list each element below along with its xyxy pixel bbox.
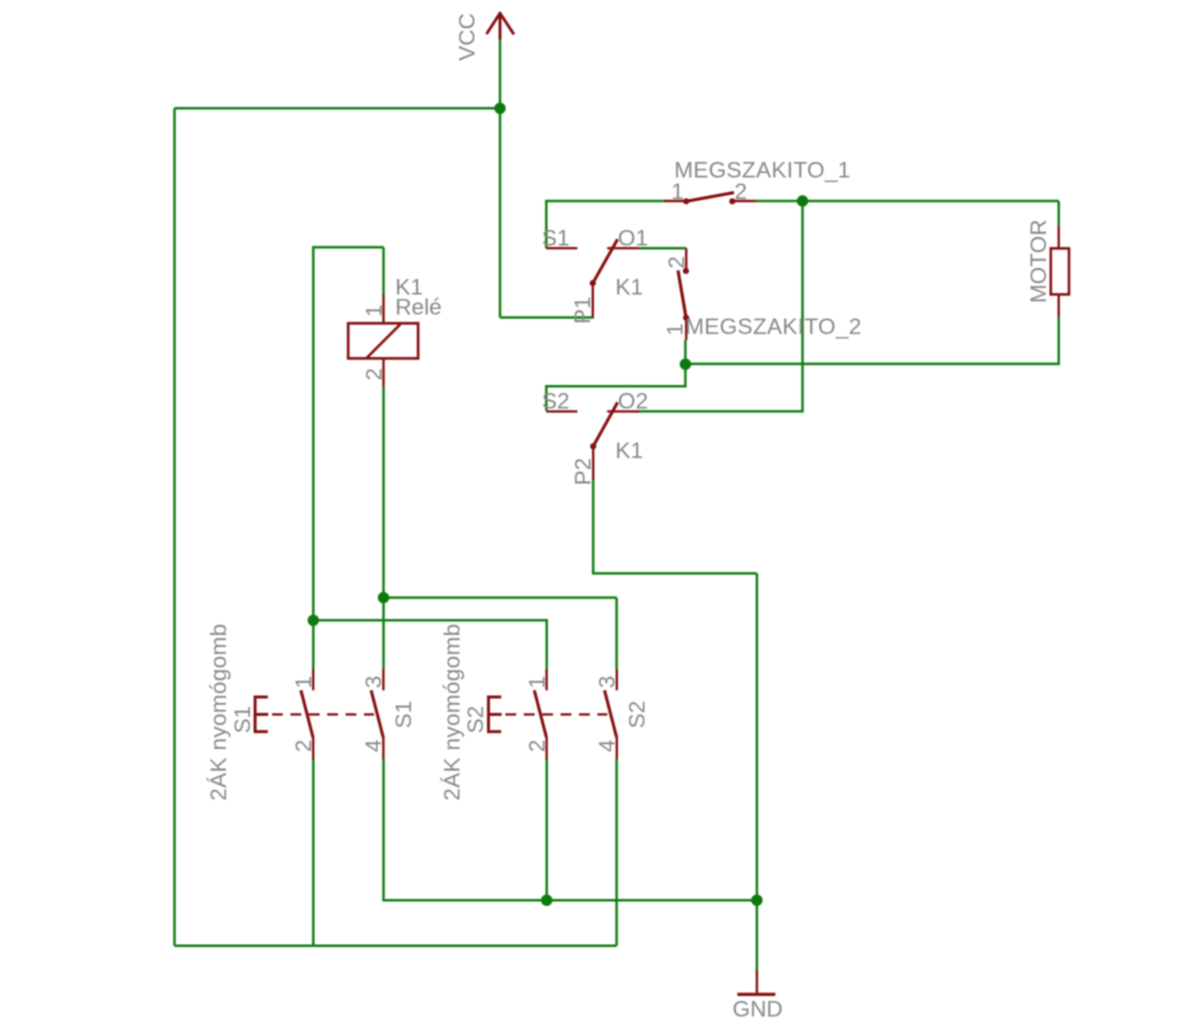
pushbutton S2 pin 2 stub [545,738,547,760]
resistor MOTOR pin 2 stub [1057,294,1059,317]
breaker MEGSZAKITO_1 contact dot pin1 [683,198,689,204]
breaker MEGSZAKITO_1 pin 1 stub [663,200,686,202]
svg-text:P2: P2 [571,458,596,486]
wire P2 down and across to GND riser [593,480,757,573]
pushbutton S2 pin 4 stub [616,738,618,760]
svg-text:1: 1 [671,179,684,204]
pushbutton S2 blade 3-4 [605,690,617,737]
pushbutton S1 pin 2 stub [312,738,314,760]
svg-text:3: 3 [594,676,619,689]
svg-text:1: 1 [362,304,387,317]
svg-text:2: 2 [735,179,748,204]
relay K1 pin 1 wire stub [382,294,384,323]
junction node VCC [494,103,505,114]
relay K1 pin 2 wire stub [382,358,384,386]
wire relay top loop to left column [313,247,383,668]
svg-text:2: 2 [361,368,386,381]
wire MOTOR bottom to middle node [685,317,1058,364]
pushbutton S2 actuator bracket [488,697,501,732]
wire S2 pin2 column down to GND row [545,760,548,901]
wire relay pin2 node to S2 pin3 column [384,596,617,599]
svg-text:S1: S1 [230,706,255,734]
pushbutton S1 actuator bracket [255,697,268,732]
relay contact K1a P1 pin stub [592,283,594,317]
relay contact K1b pivot dot P2 [590,443,596,449]
junction node S1 pushbutton pin1 [308,615,319,626]
pushbutton S2 blade 1-2 [534,690,546,737]
svg-text:1: 1 [662,323,687,336]
svg-text:3: 3 [361,676,386,689]
breaker MEGSZAKITO_1 blade [686,193,734,202]
svg-text:2: 2 [291,740,316,753]
svg-text:S1: S1 [391,701,416,729]
pushbutton S1 pin 3 stub [382,669,384,691]
junction node MEGSZAKITO_1 output [797,195,808,206]
relay contact K1b S2 throw stub [546,410,577,412]
relay contact K1b O2 throw stub [607,410,639,412]
svg-text:2: 2 [524,740,549,753]
wire S1 pin4 column down and across to GND node [384,760,757,901]
wire O1 contact to MEGSZAKITO_2 pin2 [639,247,686,250]
svg-text:VCC: VCC [455,13,480,61]
relay contact K1a O1 throw stub [607,247,639,249]
pushbutton S2 pin 3 stub [616,669,618,691]
svg-text:K1: K1 [615,438,643,463]
wire S2 pin4 column lower segment [615,760,618,946]
breaker MEGSZAKITO_1 pin 2 stub [732,200,755,202]
svg-text:O1: O1 [618,226,648,251]
supply symbol VCC arrow [487,13,513,38]
wire S1 contact riser to MEGSZAKITO_1 pin1 [546,201,663,248]
wire MOTOR top pin feed [1057,201,1060,226]
svg-text:2: 2 [664,256,689,269]
wire S1 pin2 column down to bottom rail [312,760,315,946]
svg-text:GND: GND [733,997,783,1022]
breaker MEGSZAKITO_2 blade [678,270,686,317]
wire relay pin2 down to S1 pin3 [382,386,385,669]
svg-text:K1: K1 [615,275,643,300]
wire S1 pin1 node across to S2 pin1 column [313,620,546,668]
resistor MOTOR pin 1 stub [1057,226,1059,249]
svg-text:4: 4 [361,740,386,753]
svg-text:1: 1 [524,676,549,689]
pushbutton S2 pin 1 stub [545,669,547,691]
junction node GND [751,895,762,906]
wire VCC row to P1 [500,316,594,319]
svg-text:MEGSZAKITO_1: MEGSZAKITO_1 [674,158,850,183]
junction node middle (MOTOR return) [680,359,691,370]
svg-text:S2: S2 [542,389,570,414]
svg-text:4: 4 [594,740,619,753]
junction node S2 pushbutton pin2 to GND row [541,895,552,906]
wire middle node down to S2 contact [546,340,685,411]
breaker MEGSZAKITO_2 pin 2 stub [685,248,687,271]
svg-text:MEGSZAKITO_2: MEGSZAKITO_2 [685,314,861,339]
pushbutton S1 blade 1-2 [301,690,313,737]
svg-text:2ÁK nyomógomb: 2ÁK nyomógomb [439,623,464,800]
svg-text:O2: O2 [618,389,648,414]
svg-text:P1: P1 [570,296,595,324]
svg-text:S1: S1 [542,226,570,251]
breaker MEGSZAKITO_2 contact dot pin2 [683,268,689,274]
relay contact K1b blade [593,402,617,446]
relay K1 coil box [348,323,418,358]
svg-text:MOTOR: MOTOR [1026,219,1051,303]
wire GND riser [756,573,759,970]
wire MEGSZAKITO_1 pin2 to MOTOR column [756,200,1059,203]
wire left rail vertical [173,108,176,945]
wire top horizontal from left rail to VCC node [175,107,501,110]
wire relay pin1 riser [382,247,385,294]
svg-text:S2: S2 [463,706,488,734]
relay contact K1a pivot dot P1 [590,280,596,286]
pushbutton S1 pin 4 stub [382,738,384,760]
breaker MEGSZAKITO_2 contact dot pin1 [683,315,689,321]
breaker MEGSZAKITO_1 contact dot pin2 [729,198,735,204]
wire S2 pin3 column upper segment [615,598,618,669]
wire bottom horizontal left rail to S2 pin4 column [175,944,617,947]
pushbutton S1 blade 3-4 [371,690,383,737]
svg-text:Relé: Relé [395,294,441,319]
resistor MOTOR body [1051,248,1069,294]
breaker MEGSZAKITO_2 pin 1 stub [685,318,687,340]
wire VCC stem down to node P1 row [499,38,502,318]
pushbutton S2 actuator dashed link [505,713,607,715]
wire MEGSZAKITO_1 node down to O2 row [638,201,803,411]
relay contact K1a S1 throw stub [546,247,577,249]
junction node relay pin2 branch [378,592,389,603]
svg-text:2ÁK nyomógomb: 2ÁK nyomógomb [206,623,231,800]
ground symbol GND [737,970,775,994]
svg-text:S2: S2 [625,701,650,729]
pushbutton S1 actuator dashed link [272,713,374,715]
pushbutton S1 pin 1 stub [312,669,314,691]
svg-text:1: 1 [291,676,316,689]
relay contact K1a blade [593,239,618,283]
relay contact K1b P2 pin stub [592,446,594,480]
